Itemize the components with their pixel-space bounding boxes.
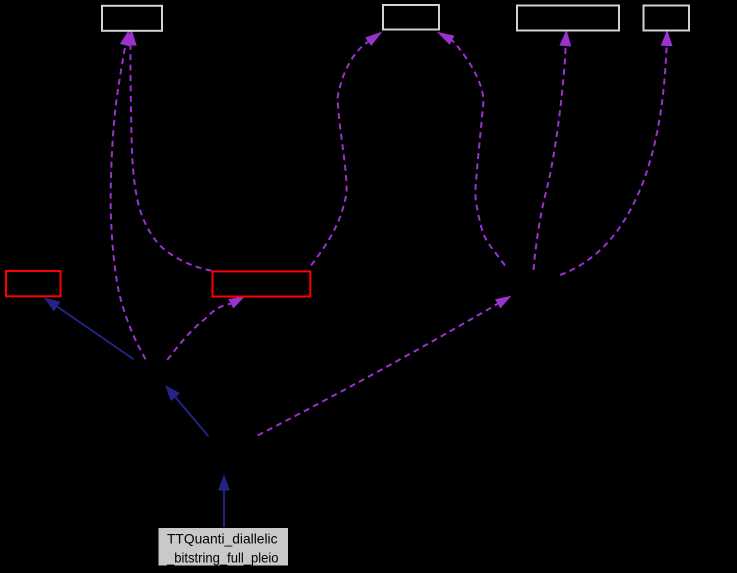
node box B4 (top-right, gray border) (644, 6, 690, 31)
wire: edge node-A to box B1 (dashed) (111, 48, 146, 360)
wire: blue inheritance edge node-A to red-box-R1 (solid) (57, 307, 134, 360)
arrowhead into box B1 (left, from node-A) (120, 29, 131, 46)
wire: edge node-C to box B2 right branch (dashed) (452, 40, 505, 265)
blue arrowhead into red-box-R1 (from node-A) (44, 298, 61, 312)
node box R1 (left red truncated node) (6, 271, 61, 296)
arrowhead into box B2 bottom-right (from node-C) (437, 32, 455, 45)
arrowhead into box B1 (right, from red-box-R2) (125, 29, 136, 46)
node box R2 (middle red truncated node) (213, 271, 311, 296)
svg-text:_bitstring_full_pleio: _bitstring_full_pleio (166, 549, 279, 565)
wire: blue inheritance edge node-B to node-A (solid) (175, 397, 208, 436)
wire: edge node-A to red-box-R2 (dashed) (167, 304, 231, 360)
arrowhead into red-box-R2 bottom (from node-A) (228, 296, 245, 309)
arrowhead into node-C (from node-B) (495, 296, 512, 309)
wire: blue inheritance edge main-box to node-B (solid) (223, 491, 225, 528)
node box B3 (top, gray border) (517, 6, 619, 31)
wire: edge node-B to node-C (dashed) (258, 304, 498, 436)
wire: edge red-box-R2 to box B1 (dashed) (130, 46, 211, 271)
wire: edge node-C to box B3 (dashed) (534, 46, 566, 270)
arrowhead into box B2 bottom-left (from red-box-R2) (365, 31, 382, 46)
wire: edge red-box-R2 to box B2 left branch (dashed) (311, 42, 368, 266)
blue arrowhead into node-A (from node-B) (165, 385, 180, 401)
blue arrowhead into node-B (from main-box) (218, 475, 230, 491)
node box B2 (top, gray border) (383, 5, 439, 30)
wire: edge node-C to box B4 (dashed) (560, 46, 667, 275)
svg-text:TTQuanti_diallelic: TTQuanti_diallelic (167, 531, 278, 547)
arrowhead into box B3 (from node-C) (559, 30, 571, 47)
main node box TTQuanti_diallelic_bitstring_full_pleio (gray filled) (158, 528, 289, 567)
arrowhead into box B4 (from node-C) (661, 30, 673, 46)
node box B1 (top-left, gray border) (102, 6, 162, 31)
